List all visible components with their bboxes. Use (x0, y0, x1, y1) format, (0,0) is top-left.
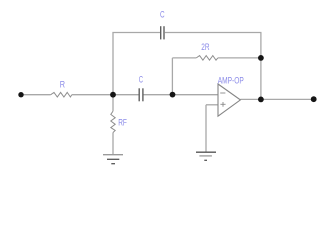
wire C1 right plate to op-amp inverting input through node B (144, 94, 219, 96)
wire node A up to top branch (112, 33, 114, 95)
resistor R (51, 92, 72, 97)
svg-text:2R: 2R (201, 42, 209, 53)
capacitor C1 middle (139, 88, 143, 101)
resistor RF (111, 111, 115, 132)
op-amp U1 (218, 84, 240, 116)
wire node A down to RF (112, 95, 114, 112)
output node junction (258, 97, 264, 103)
svg-text:AMP-OP: AMP-OP (218, 75, 244, 86)
svg-text:R: R (60, 80, 65, 91)
wire input to R (21, 94, 51, 96)
wire R to node A and to C1 left plate (72, 94, 139, 96)
wire 2R branch right segment (218, 57, 261, 59)
svg-text:C: C (139, 75, 143, 86)
ground below op-amp non-inverting input (196, 152, 216, 160)
svg-text:C: C (160, 10, 165, 21)
wire top branch left of C2 (112, 32, 160, 34)
wire 2R branch left segment (172, 57, 196, 59)
wire right vertical from top branch to output node (260, 33, 262, 100)
wire RF to ground (112, 133, 114, 155)
resistor 2R (196, 56, 218, 61)
node A junction (110, 92, 116, 98)
capacitor C2 top (161, 26, 164, 39)
wire top branch right of C2 (165, 32, 262, 34)
wire node B up to 2R branch (171, 58, 173, 95)
wire op-amp non-inverting input (206, 104, 218, 106)
wire op-amp non-inverting input down to ground (205, 105, 207, 152)
input terminal node (18, 92, 23, 97)
ground below RF (103, 155, 123, 164)
junction 2R right (258, 55, 264, 61)
svg-text:RF: RF (118, 117, 127, 128)
output terminal node (311, 96, 317, 102)
wire op-amp output to terminal (240, 98, 313, 100)
node B junction (170, 92, 176, 98)
